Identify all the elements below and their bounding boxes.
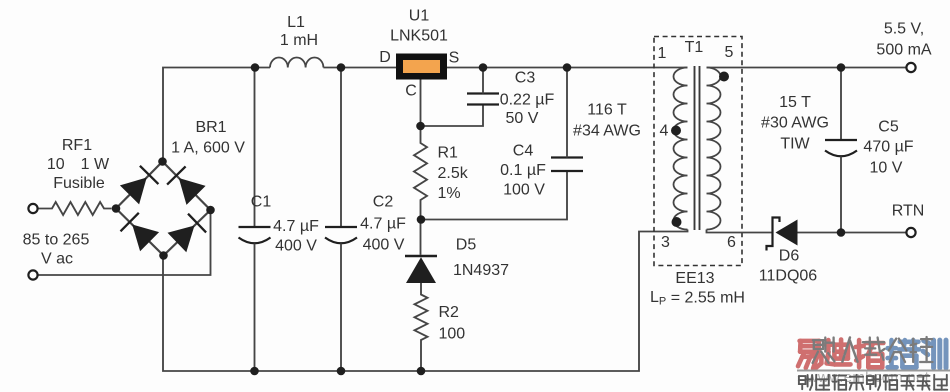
svg-text:S: S — [449, 50, 460, 67]
svg-text:RF1: RF1 — [62, 137, 92, 154]
svg-text:470 µF: 470 µF — [863, 139, 913, 156]
svg-text:LNK501: LNK501 — [390, 28, 448, 45]
svg-text:85 to 265: 85 to 265 — [23, 232, 90, 249]
svg-text:R1: R1 — [438, 145, 459, 162]
svg-text:15 T: 15 T — [779, 94, 811, 111]
svg-text:500 mA: 500 mA — [876, 42, 931, 59]
svg-text:1 mH: 1 mH — [280, 32, 318, 49]
svg-text:V ac: V ac — [41, 251, 73, 268]
svg-text:C4: C4 — [513, 143, 534, 160]
svg-text:6: 6 — [727, 234, 736, 251]
svg-text:C: C — [405, 83, 417, 100]
svg-text:5.5 V,: 5.5 V, — [884, 21, 924, 38]
svg-text:4.7 µF: 4.7 µF — [360, 216, 406, 233]
svg-text:5: 5 — [725, 44, 734, 61]
svg-text:10 V: 10 V — [870, 160, 903, 177]
svg-text:4.7 µF: 4.7 µF — [273, 218, 319, 235]
svg-text:100: 100 — [439, 326, 466, 343]
svg-text:RTN: RTN — [892, 203, 925, 220]
svg-text:#34 AWG: #34 AWG — [573, 123, 641, 140]
svg-text:L1: L1 — [287, 14, 305, 31]
svg-text:400 V: 400 V — [275, 238, 317, 255]
svg-text:Fusible: Fusible — [53, 175, 105, 192]
svg-text:0.1 µF: 0.1 µF — [500, 162, 546, 179]
svg-text:1 A, 600 V: 1 A, 600 V — [171, 140, 245, 157]
svg-text:1N4937: 1N4937 — [453, 262, 509, 279]
svg-text:1%: 1% — [438, 185, 461, 202]
svg-text:3: 3 — [661, 234, 670, 251]
svg-text:116 T: 116 T — [587, 102, 627, 119]
svg-text:C1: C1 — [251, 194, 272, 211]
svg-text:100 V: 100 V — [503, 182, 545, 199]
svg-text:C5: C5 — [878, 119, 899, 136]
svg-text:1: 1 — [658, 45, 667, 62]
svg-text:C3: C3 — [515, 70, 536, 87]
svg-text:D6: D6 — [779, 248, 800, 265]
svg-text:4: 4 — [660, 123, 669, 140]
svg-text:C2: C2 — [373, 194, 394, 211]
svg-text:10 1 W: 10 1 W — [47, 156, 110, 173]
svg-text:0.22 µF: 0.22 µF — [500, 92, 555, 109]
svg-text:D5: D5 — [456, 237, 477, 254]
svg-text:400 V: 400 V — [363, 237, 405, 254]
svg-text:T1: T1 — [685, 39, 704, 56]
svg-text:U1: U1 — [409, 8, 430, 25]
svg-text:50 V: 50 V — [506, 110, 539, 127]
svg-text:2.5k: 2.5k — [438, 165, 469, 182]
svg-text:R2: R2 — [439, 304, 460, 321]
svg-text:BR1: BR1 — [195, 119, 226, 136]
svg-text:11DQ06: 11DQ06 — [759, 268, 818, 285]
svg-text:#30 AWG: #30 AWG — [761, 115, 829, 132]
svg-text:TIW: TIW — [780, 136, 810, 153]
svg-text:EE13: EE13 — [675, 270, 714, 287]
svg-text:D: D — [379, 49, 391, 66]
